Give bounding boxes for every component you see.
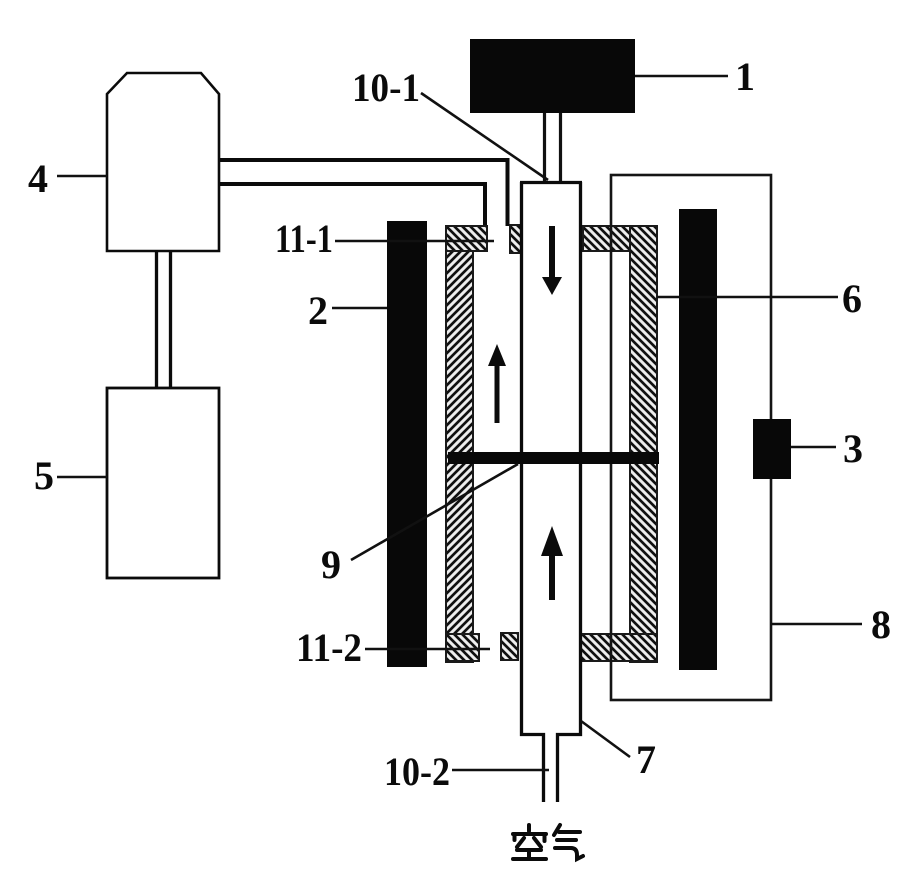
lead line to label 7 [581, 721, 630, 757]
furnace bottom-right flange [580, 634, 657, 661]
pipe from motor to furnace (upper line) [219, 160, 508, 226]
flow arrow down (inside tube top) [549, 226, 555, 279]
svg-text:3: 3 [843, 426, 863, 471]
heater bar 6 (right) [679, 209, 717, 670]
lead line to label 10-2 [452, 769, 549, 772]
furnace top-left flange 11-1 [446, 226, 487, 251]
svg-text:1: 1 [735, 54, 755, 99]
air label 气 (hand drawn) [554, 825, 583, 859]
lead line to label 6 [657, 296, 838, 299]
sensor 3 on enclosure wall [753, 419, 791, 479]
lead line to label 1 [635, 75, 728, 78]
lead line to label 2 [332, 307, 387, 310]
furnace bottom-left flange 11-2 [446, 634, 479, 661]
svg-text:11-2: 11-2 [296, 625, 362, 670]
motor 4 (chamfered pentagon) [107, 73, 219, 251]
label 10-1 leader line [421, 93, 548, 180]
component 5 box [107, 388, 219, 578]
small top hatch piece right of inlet pipe [510, 225, 521, 253]
air label 空 (hand drawn) [513, 825, 546, 859]
shaft between motor 4 and unit 5 [155, 251, 158, 388]
lead line to label 5 [57, 476, 107, 479]
svg-text:7: 7 [636, 737, 656, 782]
svg-text:10-2: 10-2 [384, 749, 450, 794]
reaction tube 7 left wall with bottom step [522, 182, 544, 802]
reaction tube 7 top edge [520, 181, 582, 184]
inlet pipe 10-1 from box 1 to tube top [543, 113, 546, 182]
flow arrow up (annulus left) [495, 364, 500, 423]
outer enclosure 8 [611, 175, 771, 700]
svg-text:2: 2 [308, 288, 328, 333]
small bottom hatch piece [501, 633, 518, 660]
lead line to label 11-2 [365, 648, 490, 651]
svg-text:10-1: 10-1 [352, 65, 420, 110]
furnace left wall (hatched) [446, 226, 473, 662]
svg-text:11-1: 11-1 [275, 216, 333, 261]
furnace right wall (hatched) [630, 226, 657, 662]
component 1 black box (gas supply) [470, 39, 635, 113]
lead line to label 8 [771, 623, 862, 626]
svg-text:6: 6 [842, 276, 862, 321]
heater bar 2 (left) [387, 221, 427, 667]
lead line to label 9 [351, 464, 518, 560]
baffle plate 9 (black bar) [448, 452, 659, 464]
lead line to label 3 [791, 446, 836, 449]
svg-text:9: 9 [321, 542, 341, 587]
svg-text:8: 8 [871, 602, 891, 647]
svg-text:4: 4 [28, 156, 48, 201]
reaction tube 7 right wall with bottom step [558, 182, 581, 802]
lead line to label 4 [57, 175, 107, 178]
flow arrow up (inside tube bottom) [549, 554, 555, 600]
lead line to label 11-1 [335, 240, 494, 243]
svg-text:5: 5 [34, 453, 54, 498]
furnace top-right flange [583, 226, 657, 251]
pipe from motor to furnace (lower line) [219, 184, 485, 226]
